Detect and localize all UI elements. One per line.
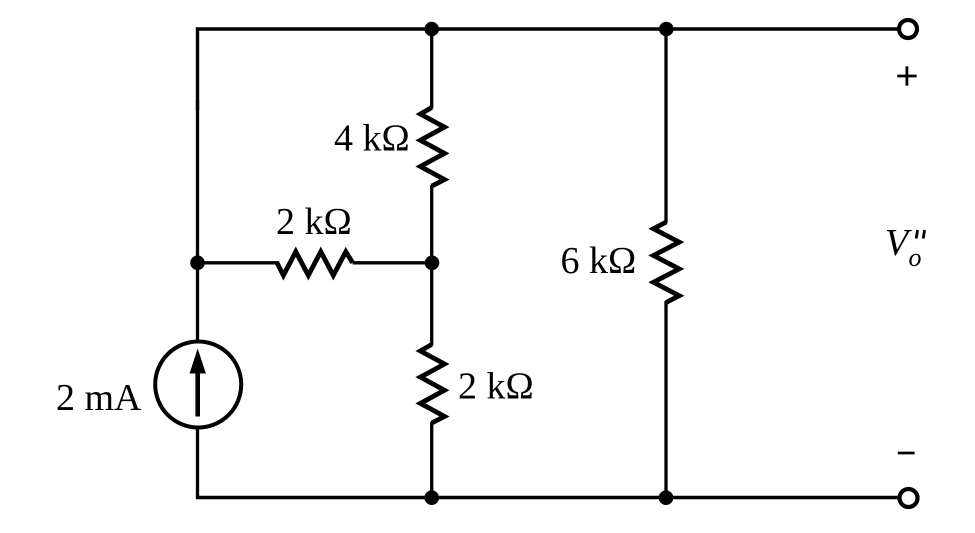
- polarity mark: plus sign: [897, 66, 916, 85]
- resistor 4k vertical zigzag: [420, 108, 444, 187]
- wire: middle rail right segment (resistor to node C): [353, 261, 432, 264]
- node B: junction dot on top rail: [424, 22, 439, 37]
- wire: top rail from left corner to + output terminal: [198, 29, 898, 110]
- current source I1 circle: [155, 342, 241, 428]
- svg-text:4 kΩ: 4 kΩ: [334, 118, 410, 160]
- wire: left branch lower segment (current source down to bottom rail): [196, 428, 199, 500]
- wire: branch x=666 top segment (top node E to 6k resistor): [664, 29, 667, 223]
- svg-text:2 mA: 2 mA: [56, 377, 142, 419]
- node F: junction dot on bottom rail at right branch: [659, 490, 674, 505]
- wire: branch x=666 bottom segment (6k resistor to bottom node F): [664, 301, 667, 498]
- wire: branch x=431.7 segment between 4k resistor and node C: [430, 185, 433, 263]
- wire: left branch upper segment (corner down to current source): [196, 100, 199, 342]
- net label: Vo'' output voltage: [885, 222, 925, 272]
- wire: branch x=431.7 segment from node C down to 2k resistor: [430, 263, 433, 346]
- polarity mark: minus sign: [898, 452, 915, 455]
- resistor 2k horizontal zigzag: [277, 252, 353, 276]
- wire: middle rail left segment (node A to resistor): [198, 261, 280, 264]
- svg-text:2 kΩ: 2 kΩ: [276, 201, 352, 243]
- svg-text:2 kΩ: 2 kΩ: [458, 366, 534, 408]
- node E: junction dot on top rail at right branch: [659, 22, 674, 37]
- resistor 2k vertical zigzag: [420, 344, 444, 423]
- resistor 6k vertical zigzag: [654, 222, 680, 302]
- svg-text:6 kΩ: 6 kΩ: [561, 240, 637, 282]
- wire: branch x=431.7 top segment (top node B to 4k resistor): [430, 29, 433, 109]
- current source I1 arrow head: [190, 349, 206, 374]
- wire: branch x=431.7 bottom segment (2k resistor to bottom node D): [430, 422, 433, 498]
- wire: bottom rail from left corner to - output terminal: [196, 496, 899, 499]
- svg-text:o: o: [909, 243, 922, 272]
- node A: junction dot on left rail at middle wire: [190, 255, 205, 270]
- current source I1 arrow shaft: [195, 370, 200, 417]
- node D: junction dot on bottom rail at center branch: [424, 490, 439, 505]
- node C: junction dot at middle rail and center branch: [425, 255, 440, 270]
- terminal: + output open circle: [899, 20, 917, 38]
- terminal: - output open circle: [900, 489, 918, 507]
